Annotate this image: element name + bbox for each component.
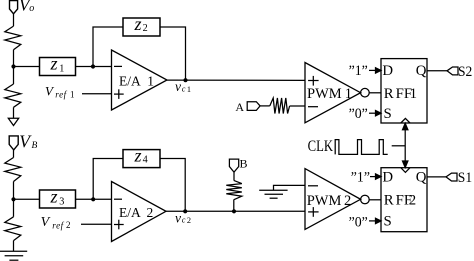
svg-text:3: 3 bbox=[59, 196, 64, 207]
svg-text:z: z bbox=[50, 54, 58, 74]
svg-text:1: 1 bbox=[70, 89, 75, 99]
svg-text:B: B bbox=[32, 141, 38, 151]
svg-text:R: R bbox=[384, 86, 394, 102]
svg-text:1: 1 bbox=[187, 85, 191, 94]
svg-text:1: 1 bbox=[345, 86, 352, 102]
svg-text:2: 2 bbox=[147, 205, 154, 220]
svg-text:”1”: ”1” bbox=[349, 63, 368, 79]
svg-text:D: D bbox=[382, 170, 393, 186]
svg-text:E/A: E/A bbox=[119, 74, 141, 89]
svg-text:A: A bbox=[235, 100, 244, 114]
svg-text:”1”: ”1” bbox=[351, 170, 370, 186]
svg-text:2: 2 bbox=[143, 23, 148, 34]
svg-text:z: z bbox=[50, 186, 58, 206]
svg-text:S2: S2 bbox=[458, 64, 472, 80]
svg-text:c: c bbox=[182, 216, 186, 225]
svg-text:V: V bbox=[19, 131, 32, 151]
svg-text:”0”: ”0” bbox=[349, 214, 368, 230]
svg-text:2: 2 bbox=[187, 216, 191, 225]
svg-text:PWM: PWM bbox=[307, 193, 342, 209]
svg-text:4: 4 bbox=[143, 155, 148, 166]
svg-text:V: V bbox=[41, 215, 51, 230]
svg-text:2: 2 bbox=[66, 220, 71, 230]
svg-text:1: 1 bbox=[147, 74, 154, 89]
svg-text:E/A: E/A bbox=[119, 205, 141, 220]
svg-text:o: o bbox=[29, 3, 34, 14]
svg-text:CLK: CLK bbox=[308, 138, 334, 155]
svg-text:S: S bbox=[384, 106, 392, 122]
svg-text:B: B bbox=[240, 157, 248, 171]
svg-text:Q: Q bbox=[416, 63, 427, 79]
svg-text:V: V bbox=[45, 83, 55, 98]
svg-text:c: c bbox=[182, 85, 186, 94]
svg-text:2: 2 bbox=[344, 193, 351, 209]
svg-text:R: R bbox=[384, 193, 394, 209]
svg-text:z: z bbox=[134, 146, 142, 166]
svg-text:S: S bbox=[384, 214, 392, 230]
svg-text:1: 1 bbox=[410, 86, 417, 102]
svg-text:ref: ref bbox=[52, 220, 64, 230]
svg-text:D: D bbox=[382, 63, 393, 79]
svg-text:”0”: ”0” bbox=[349, 106, 368, 122]
svg-text:PWM: PWM bbox=[307, 86, 342, 102]
svg-text:1: 1 bbox=[59, 64, 64, 75]
svg-text:ref: ref bbox=[55, 89, 67, 99]
svg-text:S1: S1 bbox=[458, 170, 472, 186]
svg-text:z: z bbox=[134, 14, 142, 34]
svg-text:Q: Q bbox=[416, 170, 427, 186]
svg-text:2: 2 bbox=[409, 193, 416, 209]
